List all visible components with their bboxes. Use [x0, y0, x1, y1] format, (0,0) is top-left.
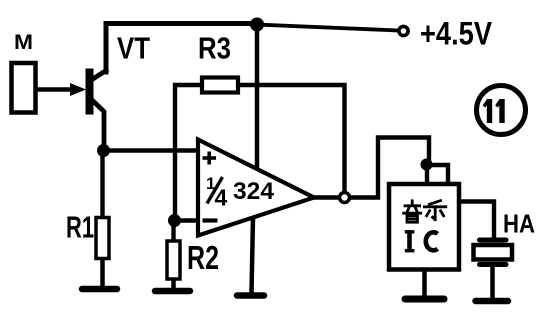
svg-text:R3: R3 [198, 31, 231, 66]
svg-text:VT: VT [117, 31, 150, 66]
svg-text:R2: R2 [187, 239, 219, 276]
svg-text:R1: R1 [66, 210, 94, 245]
svg-text:+4.5V: +4.5V [420, 16, 493, 52]
svg-text:M: M [14, 31, 33, 54]
svg-text:324: 324 [233, 178, 274, 205]
svg-text:4: 4 [215, 185, 228, 211]
svg-text:HA: HA [503, 209, 535, 239]
